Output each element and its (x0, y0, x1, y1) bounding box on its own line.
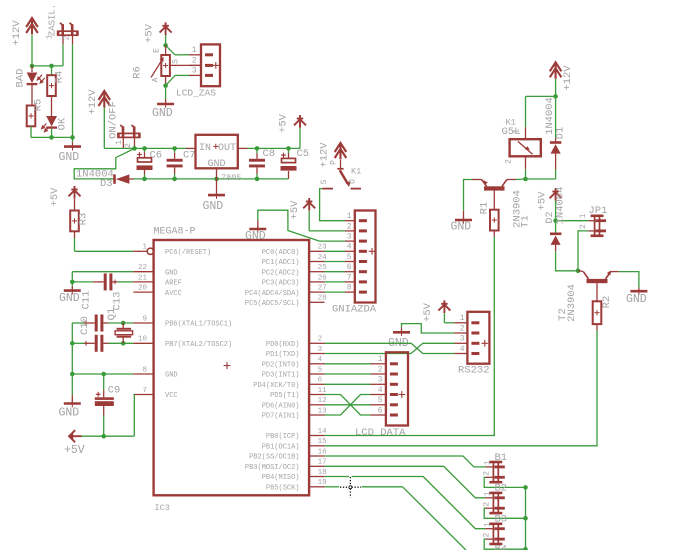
svg-text:D1: D1 (555, 127, 567, 140)
svg-text:+5V: +5V (49, 187, 61, 207)
pin 3 IC3 right (309, 353, 324, 355)
svg-text:+12V: +12V (562, 65, 574, 91)
label 2N3904 (T2) (566, 284, 578, 322)
pin 2 IC3 right (309, 342, 324, 344)
svg-text:PC3(ADC3): PC3(ADC3) (262, 280, 300, 288)
svg-text:B4: B4 (495, 544, 508, 550)
pin 22 IC3 left (133, 271, 153, 273)
node junction +12V/BAD (30, 64, 35, 69)
svg-text:PC6(/RESET): PC6(/RESET) (165, 249, 211, 257)
svg-text:1: 1 (483, 491, 492, 496)
pin 9 IC3 left (133, 322, 153, 324)
connector ZASIL pin2 wire (72, 35, 74, 44)
svg-text:18: 18 (318, 469, 327, 477)
pin labels LCD_DATA (378, 355, 383, 415)
svg-text:PD2(INT0): PD2(INT0) (262, 362, 300, 370)
label LCD_DATA (355, 427, 406, 439)
pin 13 IC3 right (309, 414, 324, 416)
svg-text:21: 21 (138, 274, 148, 282)
wire pin13 to LCD_DATA pin4 (crossover) (325, 395, 371, 416)
label R2 (601, 296, 613, 309)
svg-text:3: 3 (318, 346, 323, 354)
relay K1 coil pin1 (525, 127, 527, 139)
svg-text:PC5(ADC5/SCL): PC5(ADC5/SCL) (245, 300, 300, 308)
wire GND bus (134, 178, 289, 180)
switch K1 lever (340, 170, 351, 187)
diode D1 (550, 138, 561, 179)
svg-text:OUT: OUT (218, 143, 236, 154)
svg-text:4: 4 (460, 345, 465, 354)
svg-text:+5V: +5V (144, 23, 156, 43)
connector ON/OFF pin wires (123, 137, 134, 148)
pin label 1 ZASIL (46, 34, 55, 39)
label +5V (49, 187, 61, 207)
pin 14 IC3 right (309, 435, 324, 437)
connector ZASIL pin1 wire (62, 35, 64, 44)
svg-text:GND: GND (152, 107, 173, 120)
capacitor C10 (70, 335, 109, 352)
wire pin18 to B3 pin1 (325, 477, 486, 529)
wire input bus to 7805 IN (104, 147, 195, 149)
label C9 (108, 385, 121, 397)
svg-text:PC0(ADC0): PC0(ADC0) (262, 249, 300, 257)
svg-text:23: 23 (318, 244, 328, 252)
node junction R6 top (163, 43, 168, 48)
label 1N4004 (D1) (544, 97, 556, 135)
node junction T2 collector (576, 269, 581, 274)
power symbol +5V (RS232) (438, 300, 450, 313)
diode D2 (550, 233, 561, 252)
ground GND (T2) (630, 287, 647, 295)
capacitor C9 wires (103, 374, 105, 436)
svg-text:5: 5 (378, 396, 383, 405)
svg-text:B1: B1 (495, 452, 508, 464)
pin 10 IC3 left (133, 342, 153, 344)
svg-text:1: 1 (192, 46, 197, 55)
node junction ZASIL/GND (70, 135, 75, 140)
pin label S (320, 179, 329, 184)
svg-text:14: 14 (318, 428, 328, 436)
svg-text:PD0(RXD): PD0(RXD) (266, 341, 300, 349)
pin 11 IC3 right (309, 394, 324, 396)
svg-text:7: 7 (142, 387, 147, 395)
pin 4 IC3 right (309, 363, 324, 365)
label +12V (319, 142, 331, 168)
svg-text:1: 1 (142, 244, 147, 252)
power symbol +12V (ON/OFF) (99, 91, 111, 108)
svg-text:R3: R3 (78, 213, 90, 226)
label R1 (479, 202, 491, 215)
LED BAD (27, 73, 38, 85)
label GNIAZDA (332, 304, 377, 316)
ground GND (T1) (455, 211, 472, 224)
capacitor C11 (84, 315, 109, 332)
label GND (451, 221, 472, 234)
label GND (388, 337, 409, 350)
power symbol +5V (JP1) (550, 188, 562, 201)
wire +5V to GNIAZDA pin2 (309, 211, 345, 231)
label D1 (555, 127, 567, 140)
node junction 7805 GND (214, 177, 219, 182)
label +5V (422, 302, 434, 322)
pin label 3 (192, 67, 197, 76)
svg-text:6: 6 (378, 406, 383, 415)
svg-text:T2: T2 (557, 308, 569, 321)
pin label 2 B2 (483, 502, 492, 507)
wire pin5 to LCD_DATA pin2 (325, 373, 371, 375)
node junction C6 top (142, 146, 147, 151)
wire PD0 to RS232 pin4 (crossover) (325, 343, 455, 353)
svg-text:T1: T1 (520, 215, 532, 228)
node junction C7 top (172, 146, 177, 151)
label C8 (263, 148, 276, 160)
wire D3 anode to GND bus (129, 178, 133, 180)
wire C13 node to ground (71, 282, 73, 291)
connector ZASIL (57, 23, 79, 36)
pin 15 IC3 right (309, 445, 324, 447)
label K1 (351, 167, 361, 177)
svg-text:PB6(XTAL1/TOSC1): PB6(XTAL1/TOSC1) (165, 321, 232, 329)
svg-text:ZASIL.: ZASIL. (48, 4, 58, 36)
svg-text:K1: K1 (351, 167, 361, 177)
svg-text:3: 3 (460, 335, 465, 344)
resistor R2 (593, 301, 602, 324)
pin 17 IC3 right (309, 465, 324, 467)
wire pin16 to B1 pin1 (325, 456, 486, 467)
wire pin11 to LCD_DATA pin6 (crossover) (325, 395, 371, 416)
connector B3 pins (486, 529, 494, 539)
svg-text:17: 17 (318, 459, 327, 467)
pin label 2 B1 (483, 471, 492, 476)
svg-text:PB3(MOSI/OC2): PB3(MOSI/OC2) (245, 464, 300, 472)
label GND (626, 293, 647, 306)
wire T1 emitter to ground (464, 180, 482, 211)
power symbol +5V (R6) (160, 22, 172, 35)
power symbol +5V left-pointing (69, 430, 82, 442)
svg-text:PB7(XTAL2/TOSC2): PB7(XTAL2/TOSC2) (165, 341, 232, 349)
pin 28 IC3 right (309, 301, 324, 303)
capacitor C8 (249, 159, 265, 168)
pin labels RS232 (460, 314, 465, 354)
wire node to LCD_ZAS pin1 (166, 45, 189, 54)
svg-text:7805: 7805 (221, 173, 241, 183)
svg-text:1: 1 (46, 34, 55, 39)
svg-text:A: A (151, 77, 160, 82)
crystal Q1 (115, 323, 133, 343)
svg-text:2: 2 (63, 35, 72, 40)
svg-text:26: 26 (318, 274, 328, 282)
wire B2 pin2 to common (484, 508, 525, 518)
svg-text:PD4(XCK/T0): PD4(XCK/T0) (253, 382, 299, 390)
node junction crystal bottom (121, 341, 126, 346)
wire pin4 to LCD_DATA pin1 (325, 363, 371, 365)
svg-text:8: 8 (142, 366, 147, 374)
wire junction to R4 (51, 66, 53, 75)
svg-text:PD3(INT1): PD3(INT1) (262, 372, 300, 380)
wire K1 S to GNIAZDA pin1 (320, 189, 345, 221)
LED BAD anode wire (31, 66, 33, 72)
relay K1 coil (510, 139, 541, 156)
svg-text:P: P (330, 160, 339, 165)
svg-text:2: 2 (504, 159, 513, 164)
wire 7805 OUT to +5V (238, 128, 300, 149)
wire +5V to node (165, 35, 167, 45)
node junction C7 bottom (172, 177, 177, 182)
wire pin19 to B4 pin1 (325, 487, 466, 550)
connector LCD_DATA pins (371, 364, 386, 415)
node junction C13/GND (70, 280, 75, 285)
connector B1 pins (486, 467, 494, 477)
svg-text:1: 1 (378, 355, 383, 364)
svg-text:GND: GND (451, 221, 472, 234)
svg-text:22: 22 (138, 264, 147, 272)
label 1N4004 (D2) (555, 187, 567, 225)
svg-text:LCD_ZAS: LCD_ZAS (176, 88, 216, 99)
svg-text:2: 2 (347, 222, 352, 231)
svg-text:IC3: IC3 (155, 503, 170, 513)
wire BAD to R5 (31, 85, 33, 106)
resistor R4 (47, 75, 56, 96)
svg-text:4: 4 (318, 356, 323, 364)
svg-text:LCD_DATA: LCD_DATA (355, 427, 406, 439)
capacitor C5 wires (288, 148, 290, 179)
svg-text:PD5(T1): PD5(T1) (270, 392, 299, 400)
svg-text:S: S (320, 179, 329, 184)
label B1 (495, 452, 508, 464)
connector JP1 (591, 215, 606, 238)
label OK (57, 117, 69, 130)
capacitor C7 wires (174, 148, 176, 179)
node junction C9 top (101, 372, 106, 377)
wire R4 to OK (51, 96, 53, 116)
wire JP1 pin2 down (578, 231, 588, 271)
svg-text:+5V: +5V (289, 200, 301, 220)
svg-text:3: 3 (347, 233, 352, 242)
svg-text:PB4(MISO): PB4(MISO) (262, 474, 300, 482)
pin 7 IC3 left (133, 394, 153, 396)
svg-text:1N4004: 1N4004 (555, 187, 567, 225)
svg-text:PD7(AIN1): PD7(AIN1) (262, 413, 300, 421)
wire +12V down to bus (103, 108, 105, 149)
wire T1 collector (507, 178, 526, 181)
svg-text:VCC: VCC (165, 392, 178, 400)
label GND (7805) (207, 159, 225, 170)
svg-text:C13: C13 (112, 292, 124, 311)
pin label 1 B2 (483, 491, 492, 496)
node junction D2/JP1 (553, 218, 558, 223)
ground GND (GNIAZDA) (249, 220, 266, 233)
pin label 2 (192, 57, 197, 66)
wire T2 collector to node (578, 270, 584, 273)
pin 24 IC3 right (309, 261, 324, 263)
label C10 (79, 316, 91, 335)
wire pin26 to GNIAZDA pin7 (325, 281, 346, 283)
ground GND (R6) (157, 100, 174, 108)
wire GND to GNIAZDA pin3 (258, 210, 345, 241)
svg-text:9: 9 (142, 315, 147, 323)
pin 5 IC3 right (309, 373, 324, 375)
label C13 (112, 292, 124, 311)
pin 19 IC3 right (309, 486, 324, 488)
svg-text:3: 3 (378, 376, 383, 385)
svg-text:1: 1 (513, 129, 522, 134)
svg-text:O: O (348, 179, 357, 184)
trimmer R6 wiper arrow (151, 58, 164, 78)
label IC3 (155, 503, 170, 513)
pin 23 IC3 right (309, 250, 324, 252)
node junction +12V/relay (553, 94, 558, 99)
connector LCD_ZAS (201, 44, 220, 86)
wire pin22 GND to C13 node (72, 272, 133, 282)
pin number labels left (138, 244, 148, 395)
power symbol +12V (K1) (335, 143, 347, 160)
wire R6 wiper to LCD_ZAS pin2 (170, 64, 201, 66)
label RS232 (458, 365, 490, 377)
svg-text:GND: GND (59, 407, 80, 420)
value G5L (502, 126, 521, 138)
wire pin23 to GNIAZDA pin4 (325, 250, 346, 252)
svg-text:R5: R5 (33, 99, 45, 112)
wire pin27 to GNIAZDA pin8 (325, 291, 346, 293)
label R6 (132, 66, 144, 79)
node junction C8 bottom (255, 177, 260, 182)
ground GND (C13) (64, 287, 81, 295)
wire C11 row (72, 322, 86, 324)
pin label 1 B3 (483, 522, 492, 527)
pin label 2 B3 (483, 533, 492, 538)
svg-text:AVCC: AVCC (165, 290, 182, 298)
label R3 (78, 213, 90, 226)
power symbol +5V (R3) (69, 186, 81, 199)
label +12V (87, 89, 99, 115)
ground GND (rail) (64, 400, 81, 408)
connector GNIAZDA pins (345, 221, 355, 292)
svg-text:GND: GND (59, 151, 80, 164)
svg-text:PB5(SCK): PB5(SCK) (266, 485, 300, 493)
label C6 (150, 150, 163, 162)
wire +5V to pin7 VCC (82, 395, 135, 437)
svg-text:1: 1 (347, 212, 352, 221)
regulator IC 7805 box (196, 135, 238, 169)
pin label P (330, 160, 339, 165)
pin 21 IC3 left (133, 281, 153, 283)
capacitor C6 (137, 152, 153, 170)
svg-text:10: 10 (138, 336, 148, 344)
svg-text:GND: GND (203, 200, 224, 213)
node junction ON/OFF pin2 (132, 146, 137, 151)
label D2 (545, 211, 556, 223)
label GND (152, 107, 173, 120)
node junction crystal top (121, 321, 126, 326)
label B4 (495, 544, 508, 550)
pin label 1 (115, 140, 124, 145)
wire R5 to GND rail (30, 126, 32, 137)
pin label 1 relay (513, 129, 522, 134)
svg-text:1: 1 (483, 460, 492, 465)
wire R3 to IC3 pin1 (75, 231, 134, 251)
label GND (203, 200, 224, 213)
label GND (59, 407, 80, 420)
pin names right (245, 249, 300, 493)
svg-text:C9: C9 (108, 385, 121, 397)
pin label 2 (124, 143, 133, 148)
svg-text:13: 13 (318, 407, 328, 415)
svg-text:PB2(SS/OC1B): PB2(SS/OC1B) (249, 454, 299, 462)
svg-text:AREF: AREF (165, 280, 182, 288)
wire T2 base to R2 (596, 283, 598, 301)
resistor R5 (27, 106, 36, 127)
wire pin24 to GNIAZDA pin5 (325, 261, 346, 263)
pin label 2 relay (504, 159, 513, 164)
connector ON/OFF (117, 125, 141, 138)
wire T1 base to R1 (493, 191, 495, 210)
wire node to LCD_ZAS pin3 (166, 75, 189, 85)
node junction B1 common (523, 485, 528, 490)
pin label A (151, 77, 160, 82)
svg-text:GND: GND (245, 230, 266, 243)
svg-text:S: S (172, 59, 181, 64)
svg-text:PB0(ICP): PB0(ICP) (266, 433, 300, 441)
connector B2 (489, 492, 504, 515)
node junction R6 bottom (163, 83, 168, 88)
svg-text:20: 20 (138, 285, 148, 293)
svg-text:PC4(ADC4/SDA): PC4(ADC4/SDA) (245, 290, 300, 298)
wire OK to GND rail (51, 129, 53, 138)
label OUT (218, 143, 236, 154)
relay coil pin2 wire (525, 156, 527, 179)
label +12V (11, 20, 23, 46)
svg-text:PD6(AIN0): PD6(AIN0) (262, 403, 300, 411)
pin label 1 (192, 46, 197, 55)
connector LCD_DATA (386, 352, 408, 425)
svg-text:5: 5 (347, 253, 352, 262)
svg-text:R6: R6 (132, 66, 144, 79)
svg-text:E: E (152, 48, 161, 53)
label GND (59, 292, 80, 305)
label +12V (562, 65, 574, 91)
svg-text:+12V: +12V (87, 89, 99, 115)
svg-text:8: 8 (347, 284, 352, 293)
pin label E (152, 48, 161, 53)
label +5V (289, 200, 301, 220)
pin 27 IC3 right (309, 291, 324, 293)
svg-text:C10: C10 (79, 316, 91, 335)
svg-text:Q1: Q1 (106, 308, 118, 321)
svg-text:6: 6 (347, 263, 352, 272)
power symbol +12V (relay) (550, 62, 562, 79)
svg-text:+5V: +5V (278, 113, 290, 133)
wire switched 12V to D3 cathode (74, 148, 134, 179)
wire +5V to R3 (74, 199, 76, 211)
svg-text:OK: OK (57, 117, 69, 130)
label C11 (81, 291, 93, 310)
label JP1 (589, 205, 608, 217)
svg-text:R2: R2 (601, 296, 613, 309)
value 7805 (221, 173, 241, 183)
svg-text:28: 28 (318, 295, 327, 303)
transistor T1 (482, 180, 507, 191)
label B2 (495, 483, 508, 495)
origin cross 7805 (213, 144, 218, 149)
svg-text:C11: C11 (81, 291, 93, 310)
pin 8 IC3 left (133, 373, 153, 375)
node junction C9 bottom (101, 434, 106, 439)
capacitor C8 wires (256, 148, 258, 179)
pin 18 IC3 right (309, 476, 324, 478)
resistor R3 (70, 211, 79, 232)
svg-text:+12V: +12V (11, 20, 23, 46)
switch K1 contacts (323, 169, 362, 189)
